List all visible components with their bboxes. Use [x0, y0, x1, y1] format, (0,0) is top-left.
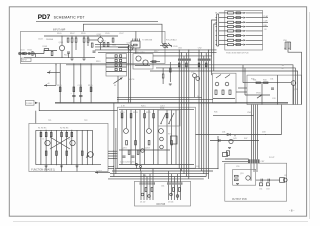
svg-text:OUTPUT PCB: OUTPUT PCB	[232, 199, 247, 201]
link verticals	[114, 103, 116, 177]
resistor divider input	[43, 46, 53, 56]
svg-text:VR31: VR31	[256, 93, 261, 95]
DR components	[140, 188, 180, 204]
input amp top rail	[44, 35, 118, 37]
svg-text:MUTE: MUTE	[129, 79, 135, 81]
right-mid labels	[253, 65, 285, 94]
transistor Q22	[147, 129, 152, 134]
output jack	[280, 178, 288, 183]
servo diode wire 2	[222, 153, 249, 162]
wire bus right 3	[150, 71, 298, 105]
transistor Q12	[191, 72, 200, 98]
svg-text:R119: R119	[96, 61, 100, 63]
transistor Q102	[88, 34, 103, 50]
left supply column 2	[71, 64, 76, 103]
center lower parts	[123, 149, 145, 158]
transistor Q41	[227, 138, 237, 155]
function out pins	[108, 151, 114, 159]
audio out wire	[256, 179, 280, 182]
svg-text:R1 R3 R5: R1 R3 R5	[38, 128, 46, 130]
small connector center top	[131, 38, 153, 48]
svg-text:C53: C53	[266, 189, 269, 191]
servo sub box	[213, 73, 237, 103]
DR pins cluster 1	[140, 169, 156, 200]
svg-text:J51: J51	[284, 175, 287, 177]
test point circles	[136, 164, 142, 172]
focus VR cluster	[160, 38, 177, 48]
muting transistor box	[133, 52, 153, 69]
transistor Q103	[118, 43, 133, 51]
svg-text:D43: D43	[262, 132, 265, 134]
connector pins below	[251, 163, 257, 180]
output caps	[259, 183, 270, 191]
right-mid wire	[243, 65, 291, 95]
svg-text:Q31: Q31	[294, 89, 298, 91]
right-mid verticals	[262, 75, 278, 104]
svg-text:R104: R104	[64, 55, 69, 57]
svg-text:R203: R203	[133, 112, 138, 114]
svg-text:R121: R121	[57, 85, 62, 87]
svg-text:C213: C213	[160, 106, 165, 108]
svg-text:R201: R201	[120, 112, 125, 114]
center mid rail	[119, 149, 170, 151]
svg-text:R215: R215	[141, 106, 146, 108]
function resistors left	[40, 132, 52, 136]
mute switch block	[106, 54, 127, 77]
page shadow bottom	[13, 221, 308, 223]
connector feed verticals	[212, 20, 217, 75]
left supply column 3	[78, 64, 83, 103]
transistor Q21	[124, 129, 129, 134]
function link stubs	[114, 151, 118, 158]
bus lower 4	[110, 176, 206, 178]
function lower resistors	[45, 151, 83, 155]
svg-text:C51: C51	[259, 189, 262, 191]
output sub box	[233, 169, 256, 185]
svg-text:R2 R4 R6: R2 R4 R6	[60, 128, 68, 130]
function switch row 8	[219, 44, 263, 46]
function bottom pins	[46, 165, 77, 172]
svg-text:C123: C123	[78, 85, 83, 87]
svg-text:R117: R117	[154, 51, 158, 53]
svg-text:PD7: PD7	[38, 14, 51, 21]
wire header feed 1	[95, 49, 217, 51]
svg-text:R103: R103	[43, 46, 48, 48]
test point arrow	[95, 171, 110, 174]
main ground rail	[55, 102, 288, 104]
svg-text:PLAY: PLAY	[264, 15, 269, 18]
transistor Q3	[86, 152, 93, 158]
function phase section box	[29, 123, 108, 171]
svg-text:CN6: CN6	[247, 112, 251, 114]
svg-text:FOCUS ADJ: FOCUS ADJ	[166, 38, 177, 41]
pin header 1	[178, 48, 191, 61]
bus lower 1	[115, 136, 218, 169]
bus lower 2	[112, 170, 213, 172]
supply feed box	[26, 100, 39, 105]
svg-text:S201: S201	[160, 108, 164, 110]
wire bus right 2	[156, 68, 295, 105]
amp resistor r4	[83, 36, 85, 58]
output connector block	[248, 159, 264, 163]
vertical mute drop	[135, 31, 137, 53]
svg-text:R33: R33	[263, 80, 266, 82]
function switch section box	[225, 10, 263, 54]
minus B arrow	[47, 70, 60, 73]
output section box	[225, 163, 287, 201]
svg-text:POWER: POWER	[26, 103, 33, 105]
svg-text:R113: R113	[101, 41, 105, 43]
svg-text:D.OUT: D.OUT	[96, 171, 103, 173]
svg-text:C105: C105	[105, 33, 110, 35]
right low wire	[210, 139, 259, 142]
DR PCB section box	[135, 181, 191, 206]
rail above 2	[117, 96, 202, 98]
svg-text:C31: C31	[270, 79, 273, 81]
svg-text:C109: C109	[173, 46, 178, 48]
left supply column 1	[57, 64, 62, 103]
bus lower 5	[108, 178, 204, 180]
svg-text:DR PCB: DR PCB	[157, 204, 166, 206]
wire amp out pair	[95, 45, 131, 103]
center bus verticals group2	[199, 61, 209, 179]
svg-text:SCHEMATIC PD7: SCHEMATIC PD7	[54, 16, 85, 20]
bus lower 3	[110, 173, 209, 175]
svg-text:D3 D4: D3 D4	[168, 202, 173, 204]
vertical x170	[162, 62, 172, 85]
svg-text:2SK68A: 2SK68A	[46, 38, 54, 41]
amp resistor r3	[75, 36, 77, 50]
svg-text:R35: R35	[251, 79, 254, 81]
right-mid lower wire	[236, 88, 270, 98]
connector pins drop	[252, 105, 258, 160]
svg-text:Q103: Q103	[127, 43, 132, 45]
svg-text:Q12: Q12	[191, 72, 195, 74]
svg-text:D41: D41	[222, 132, 225, 134]
svg-text:CN1: CN1	[178, 48, 182, 50]
function box top rail	[36, 130, 101, 164]
amp resistor r5	[87, 36, 89, 46]
+B arrow	[44, 64, 56, 87]
wire bus right 1	[66, 65, 293, 105]
svg-text:C101: C101	[20, 49, 25, 51]
svg-text:R45: R45	[214, 112, 217, 114]
amp resistor r2	[71, 36, 73, 58]
svg-text:TO MECHA: TO MECHA	[142, 38, 153, 41]
crystal cluster	[283, 40, 302, 105]
right-mid APC section box	[247, 75, 302, 104]
function switch row 3	[219, 21, 269, 24]
center box resistors bottom	[126, 141, 173, 145]
center box top rail	[119, 110, 194, 165]
svg-text:Q51: Q51	[240, 173, 244, 175]
function resistors right	[61, 132, 73, 136]
center bus verticals group1	[179, 61, 189, 179]
svg-text:CN7: CN7	[261, 161, 265, 163]
wire top feed	[83, 24, 162, 43]
title underline	[36, 21, 158, 23]
input jack L	[19, 52, 22, 55]
transistor Q23	[159, 129, 164, 134]
svg-text:Q41: Q41	[233, 138, 237, 140]
svg-text:TP2: TP2	[84, 120, 87, 122]
amp cap c3	[67, 52, 70, 58]
svg-text:C2: C2	[68, 139, 70, 141]
svg-text:R105: R105	[57, 33, 62, 35]
svg-text:Q203: Q203	[145, 148, 150, 150]
function switch row 2	[219, 15, 269, 19]
svg-text:R101: R101	[28, 49, 33, 51]
left supply column 4	[88, 64, 93, 103]
svg-text:C1: C1	[42, 139, 44, 141]
svg-text:R125: R125	[88, 85, 93, 87]
function switch row 7	[219, 39, 263, 41]
amp ground symbols	[24, 58, 95, 60]
svg-text:TP1: TP1	[48, 120, 51, 122]
center box verticals	[122, 110, 176, 165]
wire function bus	[36, 103, 118, 124]
pin header 2	[198, 48, 211, 61]
transistor Q1	[45, 140, 50, 145]
transistor Q31	[291, 81, 296, 105]
switch sub box	[158, 110, 180, 126]
DR pins cluster 2	[167, 169, 183, 200]
function switch row 6	[219, 35, 263, 37]
extra labels texture	[48, 46, 298, 188]
input jack R	[24, 52, 27, 55]
page shadow right	[309, 12, 311, 219]
svg-text:C45: C45	[196, 166, 199, 168]
input label box	[21, 58, 31, 62]
svg-text:D1 D2: D1 D2	[140, 202, 145, 204]
wire header feed 2	[98, 52, 217, 54]
svg-text:REJ: REJ	[264, 25, 268, 27]
rail above	[117, 99, 213, 101]
function labels	[38, 128, 70, 141]
top right connector column	[216, 13, 219, 46]
FET Q101	[46, 36, 65, 58]
svg-text:- 8 -: - 8 -	[289, 209, 295, 213]
function ground marks	[45, 166, 79, 167]
function switch row 1	[219, 12, 263, 14]
svg-text:FUNCTION (PHASE 1): FUNCTION (PHASE 1)	[31, 168, 55, 171]
svg-text:INPUT: INPUT	[22, 60, 27, 62]
svg-text:C55: C55	[236, 166, 239, 168]
center labels	[120, 108, 172, 164]
svg-text:R109: R109	[81, 33, 86, 35]
svg-text:C107: C107	[119, 33, 124, 35]
wire header feed 3	[153, 55, 212, 57]
svg-text:CN5: CN5	[283, 40, 287, 42]
header hang resistors	[178, 63, 207, 67]
LED pair	[160, 137, 164, 149]
function switch row 4	[219, 25, 268, 31]
input wire	[19, 49, 57, 57]
svg-text:INPUT AMP: INPUT AMP	[53, 28, 66, 31]
amp labels row	[57, 33, 116, 46]
transistor Q2	[70, 140, 75, 145]
center servo section box	[117, 107, 195, 168]
svg-text:R61: R61	[143, 175, 146, 177]
svg-text:FUNCTION SWITCH PCB: FUNCTION SWITCH PCB	[226, 52, 249, 54]
svg-text:C201 C203 C205: C201 C203 C205	[120, 162, 135, 164]
input amplifier section box	[21, 28, 166, 63]
svg-text:R205: R205	[146, 112, 151, 114]
svg-text:CN2: CN2	[198, 48, 202, 50]
svg-text:Q201: Q201	[122, 148, 127, 150]
wire left stub	[150, 61, 160, 63]
function switch row 5	[219, 30, 263, 32]
svg-text:S1: S1	[114, 85, 116, 87]
svg-text:R107: R107	[70, 33, 75, 35]
amp extra parts	[38, 33, 137, 56]
relay block	[171, 136, 178, 144]
mute arrow	[114, 76, 123, 103]
svg-text:P.OUT: P.OUT	[269, 157, 275, 159]
center box resistors top	[121, 114, 168, 118]
input jack sleeve	[31, 52, 35, 56]
svg-text:C103: C103	[38, 39, 43, 41]
svg-text:Q101: Q101	[59, 42, 64, 44]
servo diode wire	[196, 105, 282, 160]
svg-text:RY1: RY1	[168, 134, 172, 136]
cross coupling	[50, 137, 70, 149]
svg-text:C61: C61	[161, 186, 164, 188]
function out pins2	[108, 166, 114, 169]
function verticals	[36, 130, 93, 164]
svg-text:C33: C33	[272, 98, 275, 100]
svg-text:R47: R47	[244, 138, 247, 140]
